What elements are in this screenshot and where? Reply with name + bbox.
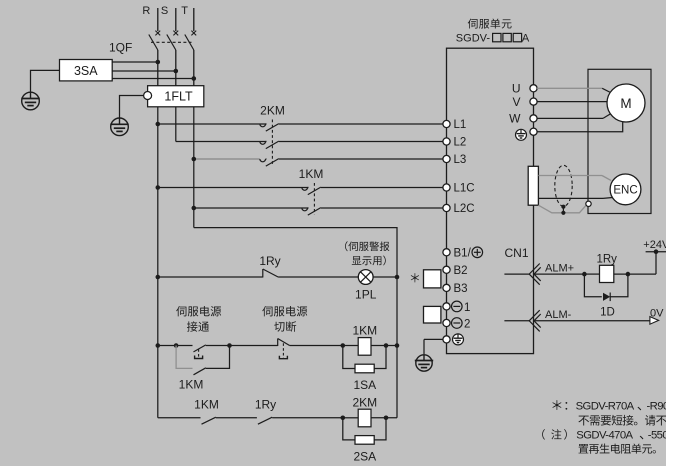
wire rung3 seg3 <box>272 417 343 419</box>
servo unit box <box>447 48 534 353</box>
white margin right <box>666 0 683 471</box>
ground for 1FLT <box>111 118 129 136</box>
svg-text:L1C: L1C <box>454 183 475 195</box>
wire V to motor <box>537 101 607 103</box>
breaker 1QF contact cross R <box>155 31 160 36</box>
wire rung1 mid <box>278 276 358 278</box>
svg-text:1KM: 1KM <box>179 378 204 392</box>
encoder ENC <box>610 174 641 205</box>
label minus1 <box>452 301 463 312</box>
wire 3SA to T <box>112 78 194 80</box>
svg-text:CN1: CN1 <box>505 246 529 260</box>
white margin bottom <box>0 466 683 471</box>
label servo unit <box>468 19 478 29</box>
label PE bottom symbol <box>453 334 464 345</box>
breaker 1QF linkage <box>151 41 192 43</box>
terminal circle 1FLT <box>144 92 152 100</box>
shield drain wire <box>538 205 586 213</box>
node T-3SA <box>192 76 197 81</box>
wire ALM- out <box>534 320 650 322</box>
wire +24V feed <box>655 252 657 274</box>
wire rung2 seg5 <box>290 345 343 347</box>
breaker 1QF contact cross T <box>191 31 196 36</box>
svg-text:S: S <box>161 5 168 17</box>
wire L2 left segment <box>176 141 267 143</box>
terminal B1 <box>443 249 450 256</box>
surge 2SA branch right <box>374 418 386 440</box>
svg-text:L2: L2 <box>454 137 467 149</box>
svg-text:1SA: 1SA <box>353 378 376 392</box>
surge absorber 3SA <box>60 60 113 81</box>
diode 1D branch <box>584 274 601 297</box>
wire T down <box>193 107 195 228</box>
label minus2 <box>452 318 463 329</box>
lamp 1PL <box>358 270 373 285</box>
node T-L3 <box>192 157 197 162</box>
pushbutton NO servo-power-on <box>194 345 206 352</box>
connector chevron ALM+ <box>529 264 540 285</box>
terminal L2 <box>443 138 450 145</box>
node R-L1 <box>156 122 161 127</box>
svg-text:1KM: 1KM <box>299 167 324 181</box>
wire coil1 right <box>371 345 397 347</box>
contactor 2KM pole 1 <box>260 124 266 127</box>
terminal U <box>530 85 537 92</box>
svg-text:ENC: ENC <box>613 185 637 197</box>
wire 1FLT to ground <box>120 96 144 119</box>
surge 2SA branch left <box>343 418 355 440</box>
svg-text:SGDV-R70A: SGDV-R70A <box>576 401 635 413</box>
shorting bar B2-B3 <box>424 270 441 288</box>
wire rung2 seg4 <box>230 345 278 347</box>
contact 1Ry NC <box>262 269 264 278</box>
surge 1SA branch left <box>343 346 355 369</box>
svg-text:U: U <box>512 82 521 96</box>
terminal minus1 <box>443 303 450 310</box>
wire S breaker to 1FLT <box>175 50 177 86</box>
node left rail rung1 <box>156 275 161 280</box>
svg-text:A: A <box>522 33 530 45</box>
wire rung1 right <box>373 276 397 278</box>
label power-on line1 <box>176 306 186 316</box>
node +24V <box>654 249 659 254</box>
svg-text:1Ry: 1Ry <box>255 398 276 412</box>
contactor 2KM pole 2 <box>260 142 266 145</box>
svg-text:W: W <box>509 112 521 126</box>
ground below servo <box>416 355 432 371</box>
wire W to motor <box>537 117 603 119</box>
wire U to motor grey <box>537 87 602 89</box>
frame ground terminal <box>586 201 591 206</box>
label servo alarm line1 <box>345 241 348 251</box>
shield connection dots <box>562 207 564 213</box>
svg-text:R: R <box>142 5 150 17</box>
node 1KM coil left <box>341 343 346 348</box>
node branch right <box>227 343 232 348</box>
svg-text:B1/: B1/ <box>454 248 472 260</box>
note line2 <box>578 416 589 426</box>
wire rung3 seg2 <box>216 417 257 419</box>
terminal B3 <box>443 284 450 291</box>
svg-text:B3: B3 <box>454 283 468 295</box>
terminal B2 <box>443 266 450 273</box>
wire 1Ry coil right <box>614 273 656 275</box>
wire L2C right segment <box>321 207 447 209</box>
svg-text:L3: L3 <box>454 154 467 166</box>
wire PE to motor <box>537 122 623 132</box>
arrow 0V <box>650 317 659 325</box>
operator power-on <box>198 349 200 358</box>
terminal L2C <box>443 204 450 211</box>
node branch left <box>174 343 179 348</box>
wire R down left rail upper <box>157 107 159 277</box>
wire T breaker to 1FLT <box>193 50 195 86</box>
surge absorber 1SA <box>355 364 374 373</box>
wire L1 right segment <box>279 123 447 125</box>
label power-on line2 <box>187 321 198 331</box>
wire S down <box>175 107 177 142</box>
breaker 1QF blade S <box>167 35 176 51</box>
wire PE to ground <box>424 338 443 340</box>
surge 1SA branch right <box>374 346 386 369</box>
wire 3SA to ground <box>31 70 60 92</box>
svg-text:ALM+: ALM+ <box>545 263 574 275</box>
surge absorber 2SA <box>355 436 374 445</box>
wire coil1 left <box>343 345 358 347</box>
motor M <box>607 84 645 122</box>
svg-text:1KM: 1KM <box>194 398 219 412</box>
wire L1 left segment <box>158 123 267 125</box>
wire rung2 seg3 <box>206 345 230 347</box>
svg-text:1Ry: 1Ry <box>259 254 280 268</box>
breaker 1QF contact cross S <box>173 31 178 36</box>
cable shield ellipse <box>555 165 572 206</box>
svg-text:2KM: 2KM <box>260 104 285 118</box>
wire L1C left segment <box>158 187 309 189</box>
ground for 3SA <box>22 92 40 110</box>
note line4 <box>579 444 589 453</box>
wire CN1 ALM- inside <box>504 320 529 322</box>
svg-text:3SA: 3SA <box>74 64 98 78</box>
svg-text:1Ry: 1Ry <box>596 253 617 265</box>
node 2KM coil left <box>341 416 346 421</box>
relay coil 1Ry <box>600 265 614 282</box>
wire L3 left segment grey <box>194 158 260 160</box>
note line1 <box>552 400 561 410</box>
svg-text:2: 2 <box>464 318 470 330</box>
contact 1Ry rung3 <box>258 417 272 424</box>
svg-text:SGDV-: SGDV- <box>456 33 491 45</box>
svg-text:V: V <box>512 95 520 109</box>
svg-text:1D: 1D <box>600 307 615 319</box>
label power-off line2 <box>274 322 284 332</box>
label servo alarm line2 <box>352 256 362 265</box>
branch 1KM aux contact grey seg <box>176 346 192 369</box>
label PE motor symbol <box>516 129 527 140</box>
wire T to right rail <box>194 228 397 418</box>
linkage 1KM <box>313 183 315 215</box>
pushbutton NC servo-power-off <box>277 339 279 347</box>
contact 1KM rung3 <box>202 417 216 424</box>
encoder wire top grey <box>538 175 602 177</box>
wire 3SA to R <box>112 61 158 63</box>
node R-3SA <box>156 60 161 65</box>
contactor 2KM pole 3 <box>260 159 266 162</box>
wire L1C right segment <box>321 187 447 189</box>
terminal PE motor <box>530 128 537 135</box>
breaker 1QF blade R <box>149 35 158 51</box>
svg-text:ALM-: ALM- <box>545 309 572 321</box>
node left rail rung2 <box>156 343 161 348</box>
terminal minus2 <box>443 319 450 326</box>
wire T input drop <box>193 8 195 31</box>
wire R breaker to 1FLT <box>157 50 159 86</box>
wire rung2 seg1 <box>158 345 176 347</box>
coil 1KM <box>358 338 371 356</box>
encoder wire bottom <box>538 197 603 199</box>
node 1Ry right <box>626 272 631 277</box>
wire R input drop <box>157 8 159 31</box>
wire CN1 ALM+ inside <box>504 273 529 275</box>
operator power-off <box>282 343 284 358</box>
node right rail rung2 <box>395 343 400 348</box>
wire L2 right segment <box>279 141 447 143</box>
wire rung2 seg2 <box>176 345 192 347</box>
node right rail rung1 <box>395 275 400 280</box>
svg-text:1FLT: 1FLT <box>164 90 193 104</box>
wire S input drop <box>175 8 177 31</box>
svg-text:1: 1 <box>464 302 470 314</box>
wire L3 right segment <box>279 158 447 160</box>
svg-text:T: T <box>181 5 188 17</box>
note line3 <box>542 429 545 440</box>
connector CN2 <box>528 166 538 205</box>
diode 1D <box>603 293 610 301</box>
contact 1KM aux <box>194 368 206 375</box>
svg-text:M: M <box>620 96 631 111</box>
wire 3SA to S <box>112 70 176 72</box>
terminal L3 <box>443 155 450 162</box>
label asterisk B2 <box>411 273 419 282</box>
svg-text:L1: L1 <box>454 119 467 131</box>
wire aux right <box>206 346 230 369</box>
node 2KM coil right <box>384 416 389 421</box>
terminal L1 <box>443 120 450 127</box>
label power-off line1 <box>262 306 272 316</box>
shorting bar minus1-minus2 <box>424 306 441 323</box>
breaker 1QF blade T <box>185 35 194 51</box>
connector chevron ALM- <box>529 310 540 331</box>
wire L2C left segment <box>194 207 309 209</box>
linkage 2KM <box>271 120 273 165</box>
svg-text:B2: B2 <box>454 265 468 277</box>
terminal W <box>530 115 537 122</box>
node 1KM coil right <box>384 343 389 348</box>
wire rung3 seg1 <box>158 417 201 419</box>
wire coil2 right <box>371 417 397 419</box>
wire coil2 left <box>343 417 358 419</box>
node T-L2C <box>192 206 197 211</box>
wire left rail lower <box>157 277 159 418</box>
svg-text:2KM: 2KM <box>352 396 377 410</box>
coil 2KM <box>358 409 371 427</box>
wire U bend <box>602 88 610 92</box>
contactor 1KM pole 2 <box>302 208 308 211</box>
svg-text:+24V: +24V <box>643 239 670 251</box>
svg-text:L2C: L2C <box>454 203 475 215</box>
noise filter 1FLT <box>148 86 204 107</box>
terminal L1C <box>443 184 450 191</box>
node S-3SA <box>174 69 179 74</box>
terminal V <box>530 98 537 105</box>
wire ALM+ out <box>534 273 584 275</box>
motor frame box <box>588 69 651 213</box>
wire to 1Ry coil <box>584 273 599 275</box>
svg-text:1KM: 1KM <box>352 323 377 337</box>
svg-text:SGDV-470A: SGDV-470A <box>576 430 633 442</box>
node R-L1C <box>156 185 161 190</box>
wire rung1 left <box>158 276 263 278</box>
terminal PE bottom <box>443 336 450 343</box>
node 1Ry left <box>582 272 587 277</box>
svg-text:2SA: 2SA <box>353 450 376 464</box>
contactor 1KM pole 1 <box>302 188 308 191</box>
svg-text:1QF: 1QF <box>109 41 132 55</box>
wire +24V rail <box>646 251 668 253</box>
svg-text:1PL: 1PL <box>355 288 377 302</box>
